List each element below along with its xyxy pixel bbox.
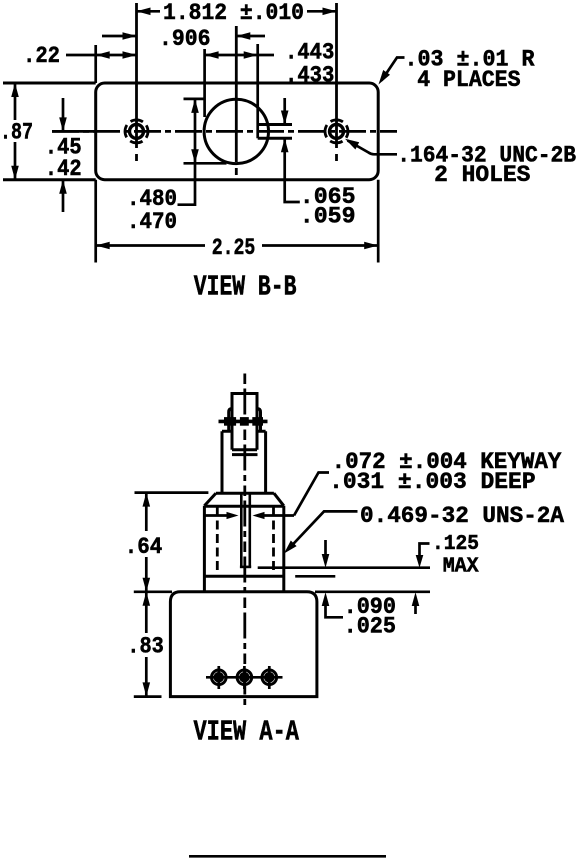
bushing top face (216, 492, 274, 495)
dimension .22 arrowheads (96, 51, 110, 59)
thread minor dia dashed left (216, 507, 219, 575)
dimension 1.812 ±.010 line (137, 10, 337, 13)
terminal lead line (206, 676, 283, 679)
svg-text:.031 ±.003 DEEP: .031 ±.003 DEEP (329, 469, 535, 496)
bottom rule line (189, 855, 386, 858)
bushing thread shoulder line (204, 575, 283, 578)
dimension .906 right arrow (236, 35, 265, 38)
retaining ring black band blocks (224, 417, 236, 426)
center hole vertical centerline (235, 26, 238, 175)
dimension .065/.059 lower stem and elbow (285, 138, 300, 202)
dim .64 reference line (135, 491, 209, 494)
extension line plate bottom edge left (3, 178, 96, 181)
dimension .480/.470 top tick (184, 98, 205, 101)
svg-text:4 PLACES: 4 PLACES (417, 67, 520, 94)
bushing chamfer left (204, 493, 216, 506)
extension line plate right edge down (377, 180, 380, 263)
body top edge extension right (315, 590, 430, 593)
bushing sides (204, 506, 283, 592)
slot depth reference line (258, 566, 430, 569)
svg-text:2 HOLES: 2 HOLES (434, 162, 530, 189)
svg-text:VIEW B-B: VIEW B-B (194, 271, 297, 304)
body top edge extension left (134, 590, 172, 593)
svg-text:VIEW A-A: VIEW A-A (194, 716, 300, 749)
terminal middle (243, 666, 246, 689)
switch body outline (170, 592, 317, 697)
bushing under-chamfer line (204, 505, 283, 508)
terminal right (268, 666, 271, 689)
extension line plate left edge above (94, 45, 97, 83)
leader corner radius callout (382, 58, 405, 81)
thread leader (289, 511, 358, 549)
vertical centerline (243, 374, 246, 708)
plunger inner box line lower (232, 453, 258, 456)
dimension .87 stem (14, 83, 17, 180)
bushing chamfer right (274, 493, 284, 506)
dim .090/.025 left pair down arrow (324, 540, 327, 555)
extension line circle left tangent (203, 49, 206, 117)
mounting hole right: thread dashed circle (321, 116, 353, 148)
svg-text:.64: .64 (125, 534, 163, 560)
dim right pair up arrow (414, 606, 417, 614)
dimension 2.25 arrowheads (96, 242, 110, 250)
body bottom edge extension left (134, 695, 162, 698)
svg-text:0.469-32 UNS-2A: 0.469-32 UNS-2A (360, 503, 565, 530)
svg-text:.059: .059 (300, 203, 356, 229)
mounting hole right: vertical centerline (335, 3, 338, 161)
dimension 2.25 line (96, 244, 379, 247)
dimension .45/.42 upper arrow (62, 98, 65, 131)
thread minor dia dashed right (272, 507, 275, 575)
dim .64 stem (145, 493, 148, 592)
collar ear right (257, 409, 261, 432)
keyway leader diagonal (294, 473, 329, 516)
mounting hole left: inner circle (130, 124, 144, 138)
mounting hole left: vertical centerline (135, 3, 138, 161)
plunger tip outline (232, 394, 257, 450)
plunger inner box line upper (232, 448, 257, 451)
center bushing hole circle (204, 99, 268, 163)
svg-text:.433: .433 (285, 62, 334, 88)
svg-text:MAX: MAX (443, 555, 479, 578)
keyway tab bottom line (258, 137, 292, 140)
svg-text:.42: .42 (45, 156, 82, 182)
keyway width left arrow (204, 514, 228, 517)
dimension 1.812 right arrowhead (323, 8, 337, 16)
svg-text:.470: .470 (127, 209, 177, 235)
svg-text:2.25: 2.25 (212, 235, 256, 262)
terminal left (217, 666, 220, 689)
svg-text:.22: .22 (23, 43, 60, 70)
keyway width right arrow (264, 514, 294, 517)
upper collar section top edge (222, 430, 266, 433)
upper collar section sides (222, 431, 266, 493)
extension line plate top edge left (3, 82, 96, 85)
dimension .480/.470 stem and elbow (178, 99, 196, 205)
svg-text:.125: .125 (432, 533, 479, 556)
mounting hole right: inner circle (330, 124, 344, 138)
dimension .906 left arrow (102, 35, 137, 38)
dimension .22 line (66, 54, 137, 57)
dimension .443/.433 line with tail (205, 54, 274, 57)
dim .125 bracket and arrow (420, 544, 430, 552)
dimension 1.812 left arrowhead (137, 8, 151, 16)
keyway slot lines (241, 493, 250, 566)
svg-text:1.812 ±.010: 1.812 ±.010 (163, 0, 304, 27)
dim .090/.025 left pair up arrow and elbow (326, 605, 344, 617)
svg-text:.906: .906 (159, 26, 211, 52)
dimension .87 arrowheads (11, 83, 19, 97)
dimension .480/.470 bottom tick (184, 162, 227, 165)
shoulder reference line (295, 575, 335, 578)
svg-text:.83: .83 (127, 634, 164, 660)
keyway tab left bar / extension line (256, 44, 259, 138)
dimension .443/.433 arrowheads (205, 51, 219, 59)
mounting hole left: thread dashed circle (121, 116, 153, 148)
dimension .480/.470 arrowheads (191, 99, 199, 113)
dimension .065/.059 upper arrow (283, 98, 286, 125)
keyway tab top line (258, 123, 292, 126)
panel plate outline (96, 83, 379, 180)
extension line plate left edge down (94, 180, 97, 263)
svg-text:.87: .87 (0, 120, 33, 146)
retaining ring tick line (219, 420, 268, 424)
leader tapped holes callout (348, 141, 398, 155)
dim .83 stem (145, 592, 148, 697)
keyway slot bottom (240, 566, 251, 569)
collar ear left (229, 409, 232, 432)
dimension .45/.42 lower arrow (62, 180, 65, 212)
horizontal centerline through plate (52, 130, 397, 133)
svg-text:.025: .025 (344, 613, 396, 639)
